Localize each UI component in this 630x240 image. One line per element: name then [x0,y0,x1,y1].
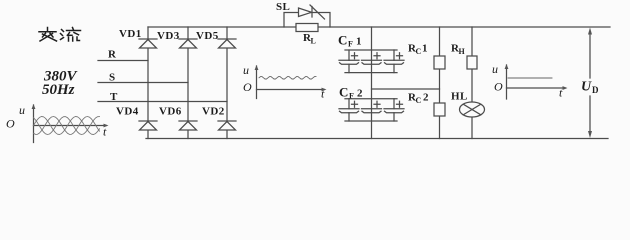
svg-text:O: O [494,80,503,94]
diode VD3 [157,30,197,48]
waveform three-phase sine curves [34,117,100,135]
svg-text:t: t [103,125,107,139]
waveform DC flat line [508,77,552,79]
svg-text:O: O [6,117,15,131]
diode VD5 [196,30,236,48]
dimension UD [581,28,599,139]
svg-text:C: C [338,33,347,48]
wire bridge column 3 [226,27,228,139]
svg-text:O: O [243,80,252,94]
svg-text:VD5: VD5 [196,30,219,42]
svg-text:D: D [592,85,599,95]
svg-text:HL: HL [451,91,468,103]
svg-text:C: C [416,96,422,105]
svg-text:C: C [339,85,348,100]
wire bridge column 2 [187,27,189,139]
svg-text:L: L [311,37,316,46]
waveform axes (rectified ripple) [243,63,327,101]
svg-text:VD1: VD1 [119,28,142,40]
svg-text:50Hz: 50Hz [42,82,75,98]
wire filter column [371,27,373,139]
svg-text:VD4: VD4 [116,106,139,118]
svg-text:VD6: VD6 [159,106,182,118]
diode VD2 [202,106,236,131]
resistor RC2 [408,92,445,117]
waveform axes (DC output) [492,62,568,100]
svg-text:u: u [19,103,25,117]
svg-text:t: t [321,87,325,101]
diode VD6 [159,106,197,131]
svg-text:1: 1 [422,43,428,55]
svg-text:2: 2 [357,88,363,100]
switch SL bypass branch [276,1,330,27]
resistor RC1 [408,43,445,70]
text 380V 50Hz [42,69,79,99]
svg-text:U: U [581,80,592,95]
svg-text:SL: SL [276,1,290,13]
svg-text:S: S [109,72,116,84]
svg-text:VD2: VD2 [202,106,225,118]
waveform ripple curve [259,77,316,79]
capacitor group CF1 [338,33,404,73]
svg-text:1: 1 [356,36,362,48]
wire S phase line [98,82,188,84]
lamp HL [451,91,485,118]
svg-text:R: R [108,49,117,61]
svg-text:2: 2 [423,92,429,104]
resistor RL [296,24,318,46]
diode VD4 [116,106,157,131]
resistor RH [451,43,477,70]
waveform axes (three-phase input) [6,103,109,143]
svg-text:F: F [348,40,353,49]
text 交流 (AC) [39,28,81,42]
svg-text:u: u [492,62,498,76]
capacitor group CF2 [339,85,404,122]
wire bottom bus [146,138,608,140]
svg-text:C: C [416,47,422,56]
svg-text:VD3: VD3 [157,30,180,42]
diode VD1 [119,28,157,48]
svg-text:u: u [243,63,249,77]
wire midpoint link [372,88,440,90]
wire RC column [439,27,441,139]
wire RH column [471,27,473,139]
wire R phase line [98,60,148,62]
svg-text:H: H [459,47,466,56]
wire top bus [148,26,610,28]
wire T phase line [98,101,227,103]
wire bridge column 1 [147,27,149,139]
